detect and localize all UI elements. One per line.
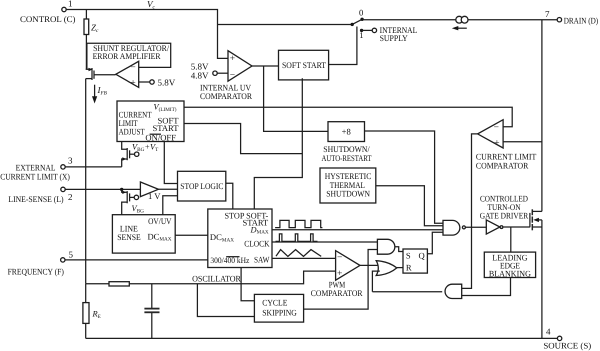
svg-text:4.8V: 4.8V bbox=[191, 71, 209, 81]
svg-text:CLOCK: CLOCK bbox=[244, 238, 270, 248]
svg-text:SUPPLY: SUPPLY bbox=[380, 33, 408, 43]
wire Dmax line to NAND bbox=[272, 229, 443, 231]
svg-text:3: 3 bbox=[68, 156, 73, 166]
wire OR lower input from AND-LEB bbox=[372, 271, 379, 292]
op-amp PWM comparator bbox=[311, 251, 363, 298]
svg-text:R: R bbox=[406, 263, 412, 273]
wire OR output to R bbox=[397, 267, 403, 269]
wire comparator output down to AND-LEB bbox=[462, 134, 478, 289]
node pin 4 SOURCE (S) bbox=[543, 327, 591, 351]
svg-text:START: START bbox=[152, 123, 179, 133]
wire DCmax to oscillator bbox=[175, 234, 208, 236]
svg-text:COMPARATOR: COMPARATOR bbox=[200, 91, 252, 101]
svg-text:STOP LOGIC: STOP LOGIC bbox=[180, 181, 223, 191]
svg-text:300/400 kHz: 300/400 kHz bbox=[210, 256, 249, 265]
box oscillator STOP SOFT-START bbox=[192, 209, 272, 283]
wire +8 output to NAND bbox=[365, 131, 444, 223]
wire pin 3 bbox=[65, 166, 122, 168]
capacitor filter bbox=[144, 284, 159, 339]
svg-text:BLANKING: BLANKING bbox=[489, 268, 531, 278]
wire on/off to stop logic bbox=[164, 142, 177, 184]
node pin 5 FREQUENCY (F) bbox=[8, 249, 74, 276]
gate OR reset bbox=[376, 261, 397, 276]
svg-text:SHUTDOWN: SHUTDOWN bbox=[326, 189, 370, 199]
wire AND output to S bbox=[395, 247, 403, 252]
svg-text:5: 5 bbox=[69, 249, 74, 259]
wire UV output branch to divide-by-8 bbox=[264, 66, 328, 131]
svg-text:2: 2 bbox=[68, 192, 73, 202]
wire stop logic output bbox=[226, 183, 233, 209]
svg-text:Q: Q bbox=[418, 251, 425, 261]
box CURRENT LIMIT ADJUST bbox=[117, 101, 184, 143]
box LEADING EDGE BLANKING bbox=[484, 252, 535, 278]
wire pin1 top bbox=[66, 10, 228, 59]
wire source rail down bbox=[541, 220, 543, 339]
wire AND-LEB output to OR bbox=[372, 291, 442, 293]
wire driver branch to LEB bbox=[510, 227, 512, 252]
transistor current limit adjust sense bbox=[122, 142, 159, 167]
wire clock line to AND bbox=[272, 241, 377, 243]
svg-text:ADJUST: ADJUST bbox=[119, 127, 146, 137]
wire driver to gate bbox=[503, 226, 530, 228]
wire 1V output bbox=[158, 188, 177, 190]
svg-text:VBG+VT: VBG+VT bbox=[132, 143, 159, 153]
switch internal supply bbox=[351, 8, 364, 41]
wire LEB to AND-LEB bbox=[462, 278, 511, 296]
waveform clock pulses bbox=[276, 234, 318, 242]
svg-text:SENSE: SENSE bbox=[117, 232, 140, 242]
wire comparator plus input to rail bbox=[503, 141, 542, 143]
svg-text:4: 4 bbox=[546, 327, 551, 337]
wire V(LIMIT) to current limit comparator bbox=[184, 107, 512, 127]
svg-text:AUTO-RESTART: AUTO-RESTART bbox=[322, 153, 373, 163]
svg-text:1: 1 bbox=[68, 0, 73, 9]
svg-text:COMPARATOR: COMPARATOR bbox=[311, 288, 363, 298]
svg-text:CONTROL (C): CONTROL (C) bbox=[20, 14, 76, 24]
svg-text:5.8V: 5.8V bbox=[158, 78, 176, 88]
wire feedback RC line bbox=[86, 271, 336, 286]
node pin 7 DRAIN (D) bbox=[545, 9, 598, 26]
wire top rail to drain bbox=[362, 19, 557, 21]
box CYCLE SKIPPING bbox=[254, 294, 303, 322]
wire saw line to PWM bbox=[272, 257, 336, 259]
svg-text:0: 0 bbox=[359, 8, 363, 18]
wire oscillator to cycle skipping bbox=[241, 268, 254, 301]
svg-text:−: − bbox=[494, 123, 499, 133]
node pin 3 EXTERNAL CURRENT LIMIT (X) bbox=[0, 156, 73, 182]
current arrow IFB bbox=[92, 85, 108, 104]
transistor output MOSFET bbox=[530, 209, 542, 230]
node pin 2 LINE-SENSE (L) bbox=[8, 187, 72, 204]
op-amp error amplifier bbox=[116, 61, 139, 88]
svg-text:SAW: SAW bbox=[254, 255, 270, 265]
node pin 1 CONTROL (C) bbox=[20, 0, 76, 24]
wire bottom rail bbox=[86, 337, 558, 339]
svg-text:−: − bbox=[130, 63, 135, 73]
wire soft-start chain down to oscillator bbox=[254, 78, 302, 209]
wire PWM output to OR bbox=[360, 264, 380, 266]
svg-text:−: − bbox=[230, 71, 235, 81]
resistor RE bbox=[83, 284, 101, 339]
transistor error-amp MOSFET bbox=[86, 68, 116, 80]
wire UV comparator output bbox=[252, 65, 279, 67]
op-amp current limit comparator bbox=[476, 120, 537, 171]
svg-text:S: S bbox=[406, 251, 411, 261]
wire left rail bbox=[85, 79, 87, 284]
net label Vc bbox=[147, 0, 156, 10]
box STOP LOGIC bbox=[178, 171, 226, 201]
wire right drain rail bbox=[541, 20, 543, 212]
box LINE SENSE bbox=[112, 215, 175, 253]
node INTERNAL SUPPLY bbox=[362, 25, 418, 43]
svg-text:OV/UV: OV/UV bbox=[148, 216, 172, 226]
svg-text:−: − bbox=[337, 253, 342, 263]
svg-text:OSCILLATOR: OSCILLATOR bbox=[192, 273, 241, 283]
wire branch to cycle skipping lower input bbox=[197, 284, 254, 317]
wire pin 2 to 1V comparator bbox=[65, 188, 140, 191]
svg-text:COMPARATOR: COMPARATOR bbox=[476, 161, 529, 171]
node 5.8V/4.8V threshold bbox=[191, 62, 228, 81]
gate AND clock bbox=[377, 239, 394, 254]
gate AND leading-edge (points left) bbox=[445, 284, 462, 298]
box +8 divider bbox=[322, 122, 373, 163]
node 5.8V reference bbox=[139, 78, 176, 88]
gate NAND main bbox=[443, 220, 465, 235]
wire soft start adjust bbox=[184, 124, 302, 154]
svg-text:7: 7 bbox=[545, 9, 550, 19]
svg-text:DRAIN (D): DRAIN (D) bbox=[564, 16, 599, 26]
svg-text:ERROR AMPLIFIER: ERROR AMPLIFIER bbox=[93, 51, 161, 61]
box shunt regulator / error amplifier bbox=[87, 43, 171, 69]
wire thermal output to NAND bbox=[376, 186, 443, 226]
resistor Zc bbox=[84, 10, 99, 70]
svg-text:SKIPPING: SKIPPING bbox=[262, 307, 297, 317]
wire pin 5 to oscillator bbox=[65, 259, 208, 261]
wire soft start to switch contact 1 bbox=[329, 27, 357, 65]
svg-text:+: + bbox=[337, 269, 342, 279]
op-amp 1V comparator bbox=[140, 182, 161, 201]
svg-text:LINE-SENSE (L): LINE-SENSE (L) bbox=[8, 194, 63, 204]
current source internal supply bbox=[452, 16, 468, 30]
flip-flop SR latch bbox=[403, 249, 427, 273]
svg-text:1 V: 1 V bbox=[148, 191, 161, 201]
svg-text:SOURCE (S): SOURCE (S) bbox=[543, 340, 591, 350]
wire OV/UV to stop logic bbox=[163, 196, 178, 215]
wire cycle skip output up to AND bbox=[304, 250, 378, 310]
waveform Dmax square wave bbox=[275, 220, 322, 227]
svg-text:+: + bbox=[130, 78, 135, 88]
transistor line sense VBG bbox=[122, 189, 144, 214]
svg-text:+: + bbox=[494, 139, 499, 149]
svg-text:+8: +8 bbox=[342, 127, 351, 137]
svg-text:SOFT START: SOFT START bbox=[282, 60, 327, 70]
svg-text:+: + bbox=[230, 54, 235, 64]
wire to switch bbox=[218, 24, 353, 26]
box hysteretic thermal shutdown bbox=[320, 168, 376, 203]
svg-text:GATE DRIVER: GATE DRIVER bbox=[480, 211, 529, 221]
svg-text:1: 1 bbox=[359, 30, 363, 40]
waveform sawtooth bbox=[276, 250, 321, 257]
box SOFT START bbox=[279, 50, 329, 80]
svg-text:CYCLE: CYCLE bbox=[262, 297, 287, 307]
gate driver inverter bbox=[480, 194, 529, 235]
svg-text:FREQUENCY (F): FREQUENCY (F) bbox=[8, 266, 64, 276]
svg-text:CURRENT LIMIT (X): CURRENT LIMIT (X) bbox=[0, 171, 70, 181]
wire NAND output to driver bbox=[465, 226, 486, 228]
wire Q feedback to NAND bbox=[427, 232, 443, 254]
op-amp internal UV comparator bbox=[200, 51, 252, 101]
